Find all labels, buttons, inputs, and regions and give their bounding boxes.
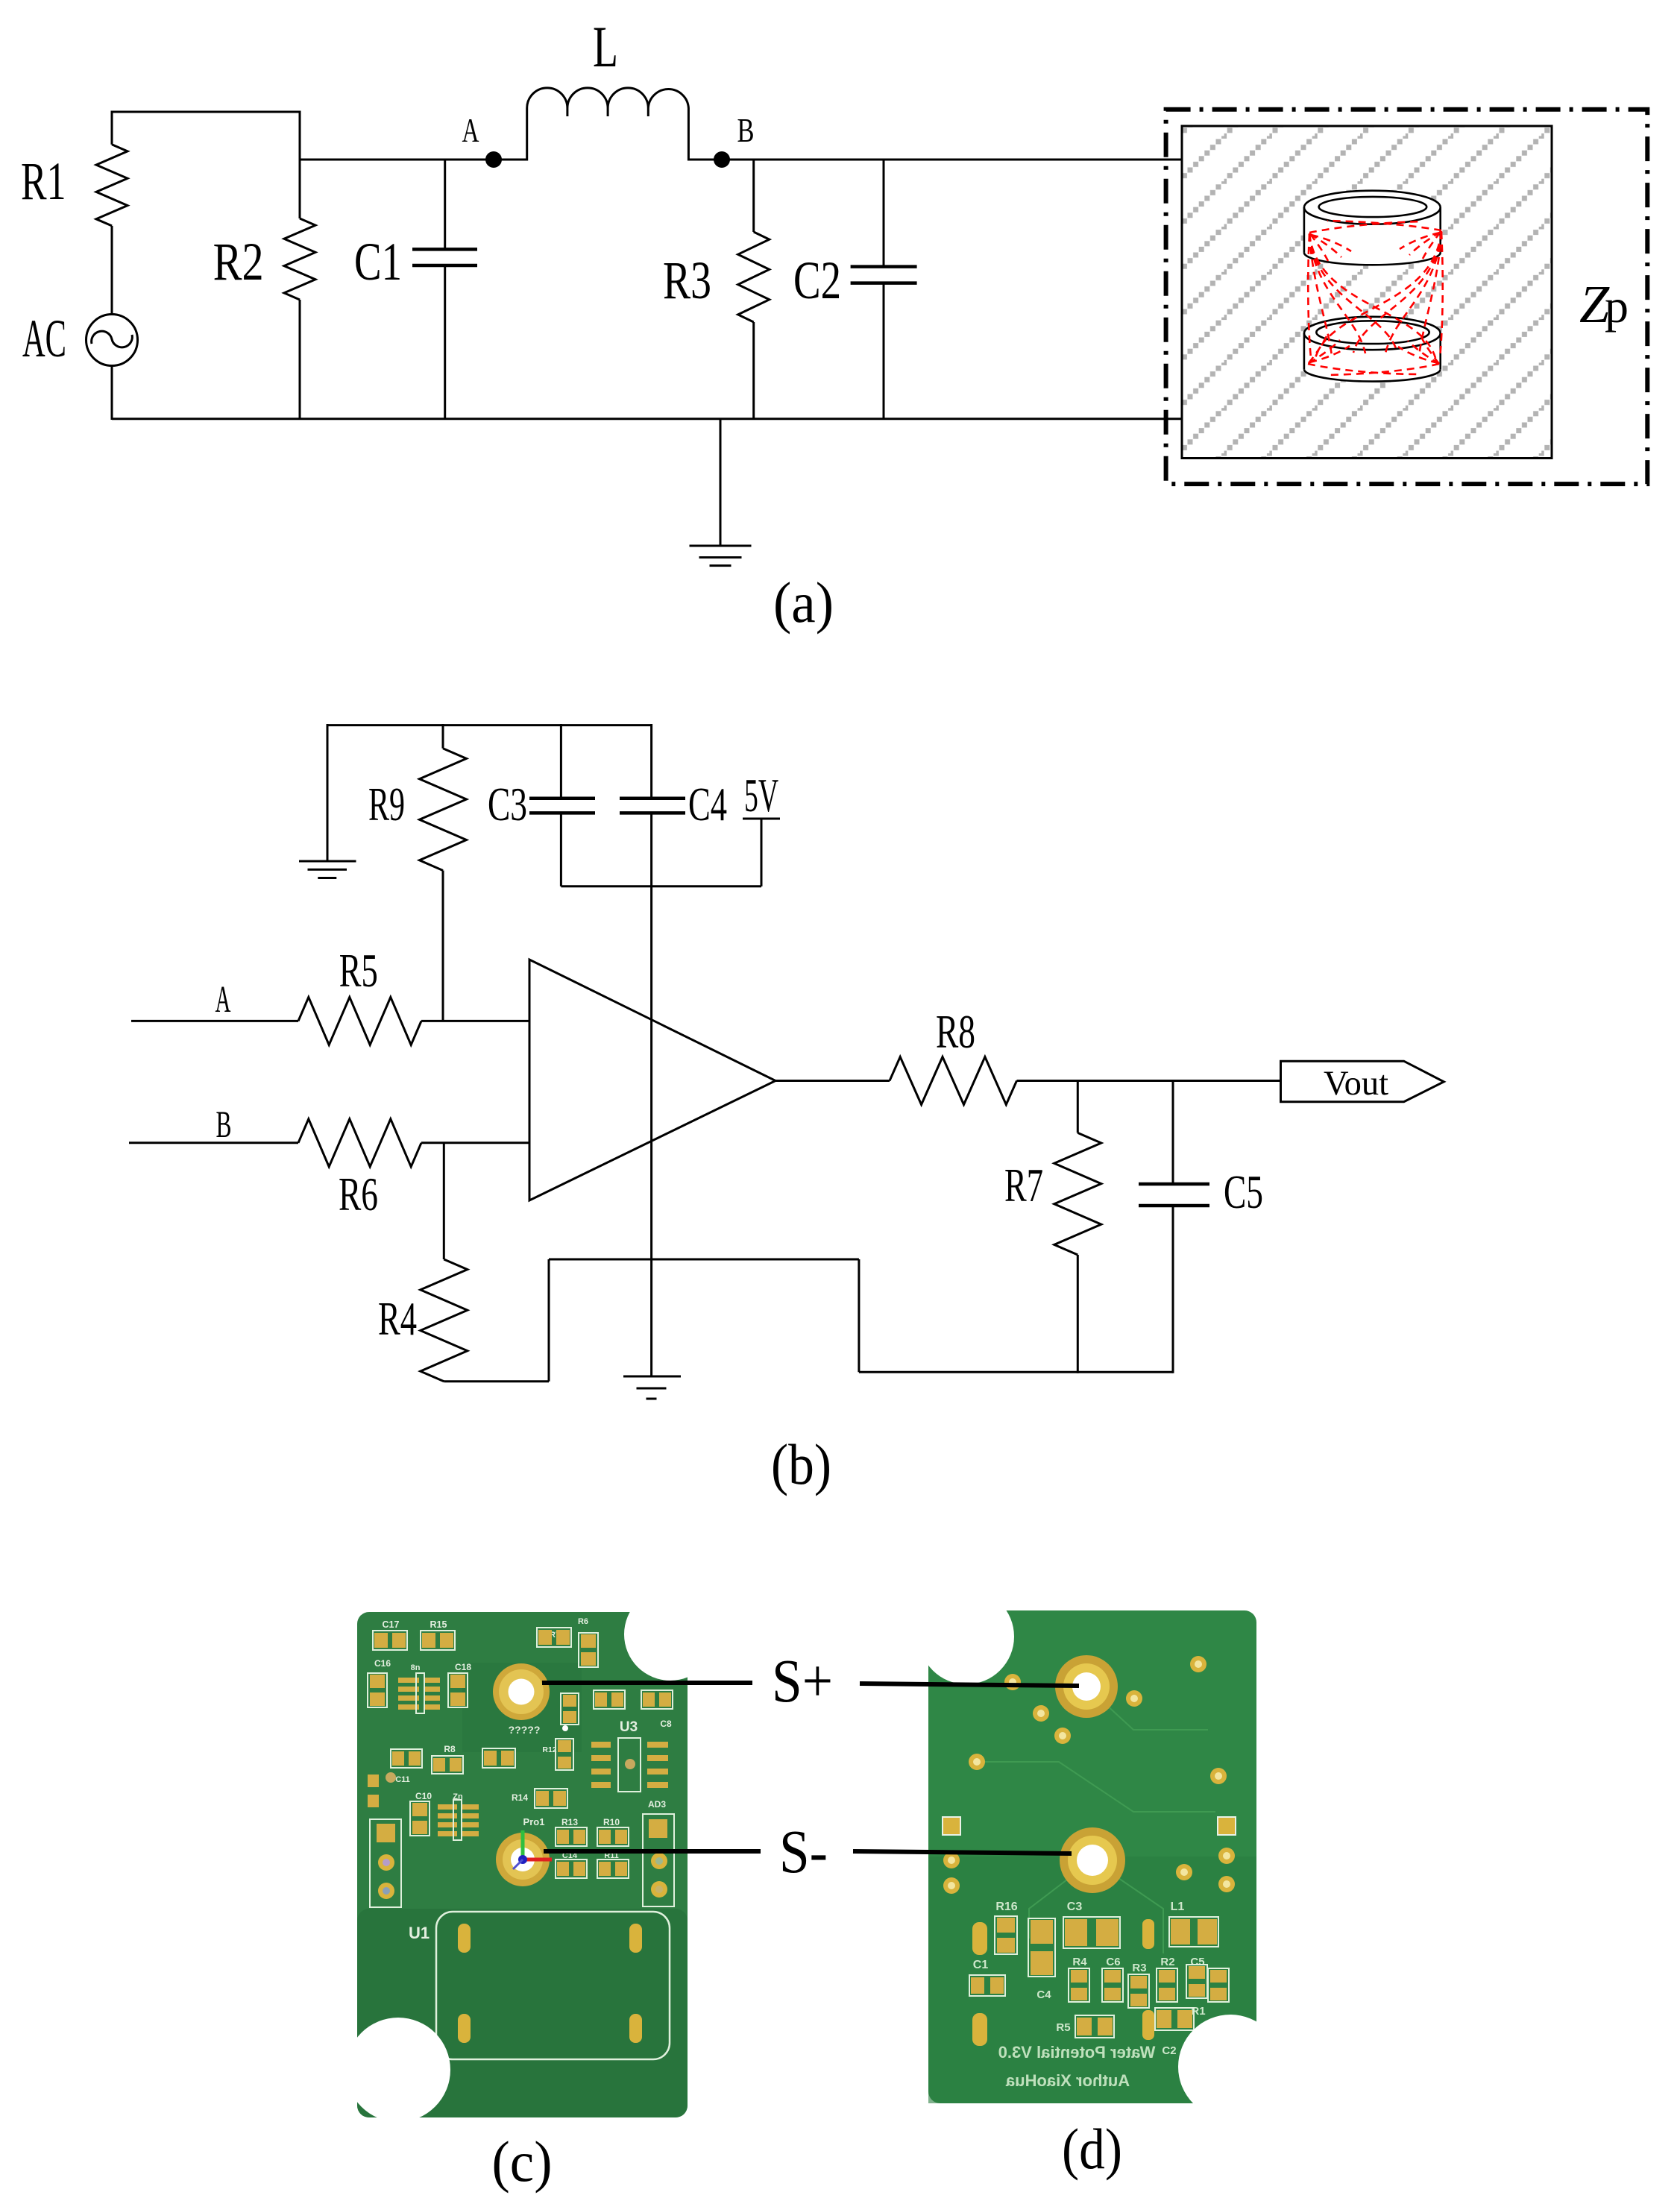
wire R5 to op-amp bbox=[421, 1020, 529, 1022]
sensor lower electrode cylinder bbox=[1304, 333, 1441, 382]
wire S+ right bbox=[860, 1684, 1079, 1686]
svg-text:R7: R7 bbox=[1004, 1159, 1043, 1212]
svg-text:R4: R4 bbox=[378, 1292, 417, 1345]
svg-text:S-: S- bbox=[779, 1817, 828, 1886]
svg-text:C18: C18 bbox=[455, 1662, 471, 1672]
wire C4 down through op-amp to ground bbox=[650, 813, 652, 1376]
svg-text:Author XiaoHua: Author XiaoHua bbox=[1005, 2071, 1130, 2090]
svg-text:U3: U3 bbox=[620, 1719, 638, 1735]
svg-text:C10: C10 bbox=[415, 1791, 432, 1801]
resistor R1 bbox=[111, 111, 113, 145]
wire bottom rail panel a bbox=[112, 418, 1183, 420]
svg-text:R8: R8 bbox=[444, 1744, 456, 1754]
svg-text:C3: C3 bbox=[1067, 1901, 1083, 1913]
capacitor C2 bbox=[883, 160, 885, 267]
red electric field lines bbox=[1308, 234, 1311, 358]
svg-text:Pro1: Pro1 bbox=[523, 1816, 545, 1827]
capacitor C3 bbox=[560, 724, 562, 799]
svg-text:R16: R16 bbox=[995, 1901, 1017, 1913]
svg-text:C17: C17 bbox=[383, 1619, 400, 1630]
capacitor C4 bbox=[650, 724, 652, 799]
node B dot bbox=[714, 151, 730, 168]
svg-text:R2: R2 bbox=[1160, 1956, 1174, 1968]
resistor R4 bbox=[443, 1143, 445, 1259]
svg-text:5V: 5V bbox=[744, 769, 778, 822]
wire input B bbox=[129, 1141, 298, 1144]
svg-text:(b): (b) bbox=[771, 1432, 831, 1496]
wire bottom rail 5V bbox=[561, 885, 761, 887]
svg-text:R9: R9 bbox=[368, 778, 405, 831]
svg-text:(a): (a) bbox=[773, 570, 834, 634]
svg-text:AD3: AD3 bbox=[648, 1799, 666, 1810]
wire R8 to Vout bbox=[1017, 1080, 1281, 1082]
resistor R2 bbox=[299, 111, 301, 219]
PCB board (d) bbox=[928, 1610, 1256, 2103]
hatched sensor region bbox=[1182, 126, 1552, 459]
svg-text:(c): (c) bbox=[492, 2129, 553, 2194]
svg-text:S+: S+ bbox=[772, 1646, 833, 1715]
ground panel b op-amp bbox=[623, 1376, 681, 1378]
svg-text:C4: C4 bbox=[1036, 1988, 1051, 2001]
wire S+ left bbox=[542, 1681, 752, 1685]
svg-text:C2: C2 bbox=[793, 251, 841, 310]
wire node B level bbox=[688, 159, 1183, 161]
svg-text:R5: R5 bbox=[339, 944, 378, 997]
svg-text:AC: AC bbox=[22, 309, 66, 368]
resistor R8 bbox=[890, 1057, 1017, 1105]
wire R6 to op-amp bbox=[421, 1141, 529, 1144]
AC source bbox=[86, 315, 138, 366]
svg-text:8n: 8n bbox=[411, 1663, 421, 1672]
ground panel b left bbox=[299, 860, 356, 863]
capacitor C5 bbox=[1172, 1081, 1174, 1185]
inductor L bbox=[527, 88, 689, 161]
svg-text:B: B bbox=[216, 1104, 232, 1146]
svg-text:R12: R12 bbox=[542, 1745, 556, 1754]
svg-text:R2: R2 bbox=[213, 232, 264, 292]
node A dot bbox=[485, 151, 502, 168]
svg-text:(d): (d) bbox=[1062, 2117, 1122, 2181]
PCB board (c) bbox=[357, 1612, 688, 2117]
svg-text:A: A bbox=[462, 111, 479, 149]
svg-text:R3: R3 bbox=[1132, 1962, 1146, 1974]
svg-text:Water Potential V3.0: Water Potential V3.0 bbox=[998, 2043, 1156, 2062]
svg-text:Vout: Vout bbox=[1324, 1064, 1388, 1103]
svg-text:C2: C2 bbox=[1162, 2044, 1176, 2057]
svg-text:R6: R6 bbox=[578, 1617, 588, 1626]
svg-text:C6: C6 bbox=[1106, 1956, 1120, 1968]
wire op-amp output bbox=[775, 1080, 890, 1082]
resistor R7 bbox=[1077, 1081, 1079, 1133]
svg-text:R15: R15 bbox=[430, 1619, 447, 1630]
sensor upper electrode cylinder bbox=[1304, 207, 1441, 265]
wire 5V stub bbox=[761, 819, 763, 887]
svg-text:R14: R14 bbox=[512, 1792, 528, 1803]
svg-text:L: L bbox=[593, 14, 618, 79]
svg-text:C1: C1 bbox=[354, 232, 402, 292]
svg-text:U1: U1 bbox=[409, 1924, 430, 1942]
wire node A level bbox=[300, 159, 527, 161]
svg-text:R3: R3 bbox=[663, 251, 711, 310]
svg-text:?????: ????? bbox=[509, 1724, 541, 1736]
wire S- left bbox=[544, 1849, 761, 1854]
wire left drop to ground bbox=[327, 724, 329, 861]
resistor R6 bbox=[298, 1119, 421, 1167]
svg-text:C4: C4 bbox=[688, 778, 727, 831]
svg-text:B: B bbox=[737, 111, 755, 149]
resistor R3 bbox=[752, 160, 755, 232]
svg-text:L1: L1 bbox=[1171, 1901, 1185, 1913]
wire AC to bottom bbox=[111, 366, 113, 421]
wire top rail panel a bbox=[112, 111, 300, 113]
wire top rail panel b bbox=[327, 724, 652, 726]
resistor R5 bbox=[298, 997, 421, 1045]
svg-text:R10: R10 bbox=[603, 1817, 620, 1827]
svg-text:p: p bbox=[1605, 280, 1629, 333]
svg-text:C5: C5 bbox=[1224, 1165, 1263, 1218]
capacitor C1 bbox=[444, 160, 446, 249]
svg-text:R1: R1 bbox=[21, 151, 66, 211]
svg-text:C1: C1 bbox=[973, 1959, 989, 1971]
dash-dot boundary box Zp bbox=[1166, 110, 1648, 484]
svg-text:C11: C11 bbox=[395, 1775, 410, 1784]
resistor R9 bbox=[442, 724, 444, 749]
svg-text:R13: R13 bbox=[561, 1817, 578, 1827]
svg-text:C16: C16 bbox=[374, 1658, 391, 1669]
wire feedback path bbox=[444, 1380, 549, 1382]
svg-text:R5: R5 bbox=[1056, 2021, 1070, 2034]
op-amp U1 bbox=[529, 960, 775, 1200]
svg-text:R6: R6 bbox=[339, 1168, 378, 1221]
svg-text:R4: R4 bbox=[1072, 1956, 1087, 1968]
wire S- right bbox=[853, 1851, 1072, 1854]
svg-text:C8: C8 bbox=[660, 1719, 672, 1729]
ground panel a bbox=[720, 419, 722, 546]
PCB (d) components bbox=[1086, 1687, 1208, 1730]
svg-text:A: A bbox=[215, 979, 231, 1021]
svg-text:C3: C3 bbox=[488, 778, 527, 831]
svg-text:R8: R8 bbox=[936, 1005, 975, 1058]
wire input A bbox=[131, 1020, 298, 1022]
Vout flag bbox=[1281, 1061, 1444, 1102]
